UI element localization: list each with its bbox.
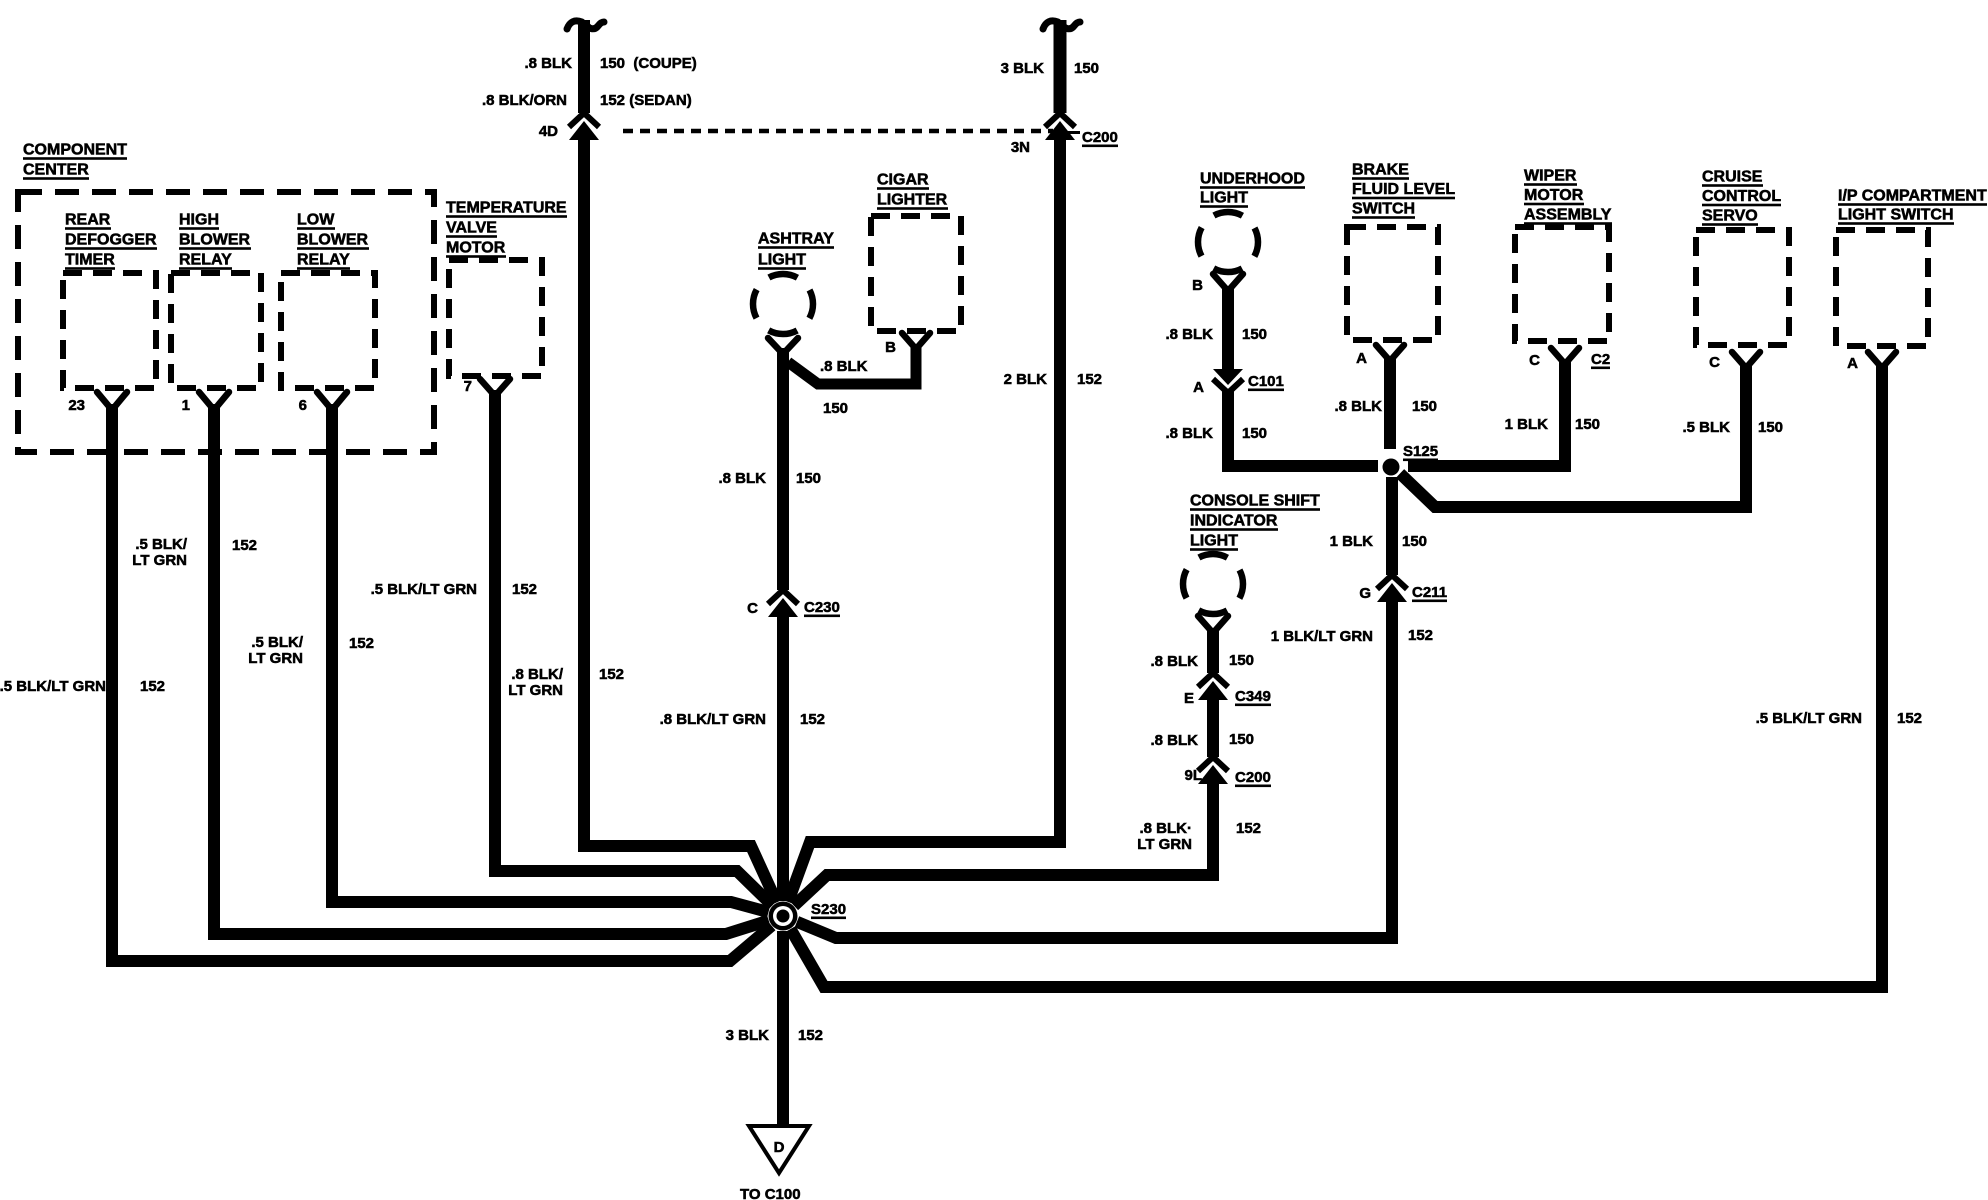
I/P compartment light switch xyxy=(1836,188,1987,346)
svg-text:152: 152 xyxy=(1897,710,1922,727)
svg-text:150: 150 xyxy=(796,470,821,487)
svg-text:LT GRN: LT GRN xyxy=(508,682,563,699)
lamp: console shift indicator light xyxy=(1183,493,1320,633)
svg-text:LT GRN: LT GRN xyxy=(248,650,303,667)
wire .8 BLK 150 (coupe) / .8 BLK/ORN 152 (sedan), 4D at C200, to S230 xyxy=(482,20,697,113)
svg-text:C101: C101 xyxy=(1248,373,1284,390)
connector A at C101 xyxy=(1193,369,1284,396)
temperature valve motor xyxy=(446,200,567,376)
low blower relay xyxy=(281,212,375,388)
svg-text:RELAY: RELAY xyxy=(297,252,350,269)
wire .8 BLK 150 (C349 to C200) xyxy=(1150,694,1254,757)
svg-text:A: A xyxy=(1356,350,1367,367)
svg-text:152: 152 xyxy=(800,711,825,728)
svg-text:C: C xyxy=(1709,354,1720,371)
wire .5 BLK/LT GRN 152 (temperature valve motor to S230) xyxy=(371,390,773,906)
wire .8 BLK 150 (brake fluid switch to S125) xyxy=(1334,357,1437,449)
wire .5 BLK 150 (cruise servo to S125) xyxy=(1400,364,1783,507)
svg-text:4D: 4D xyxy=(539,123,558,140)
svg-text:CIGAR: CIGAR xyxy=(877,172,929,189)
svg-text:SERVO: SERVO xyxy=(1702,208,1758,225)
wire 1 BLK/LT GRN 152 (C211 to S230) xyxy=(797,596,1433,938)
svg-text:152: 152 xyxy=(349,635,374,652)
svg-text:152: 152 xyxy=(232,537,257,554)
pin A xyxy=(1847,352,1896,372)
svg-text:152: 152 xyxy=(1077,371,1102,388)
wire .8 BLK 150 (cigar lighter to ashtray wire) xyxy=(788,345,916,417)
svg-text:.8 BLK: .8 BLK xyxy=(1165,326,1213,343)
svg-text:LIGHT: LIGHT xyxy=(1190,533,1238,550)
wire 3 BLK 150, 3N at C200, 2 BLK 152 to S230 xyxy=(1001,20,1099,113)
svg-text:152: 152 xyxy=(1236,820,1261,837)
svg-text:1 BLK/LT GRN: 1 BLK/LT GRN xyxy=(1271,628,1373,645)
svg-text:.5 BLK/LT GRN: .5 BLK/LT GRN xyxy=(0,678,106,695)
svg-text:152: 152 xyxy=(1408,627,1433,644)
connector 9L at C200 xyxy=(1184,757,1271,787)
svg-text:150: 150 xyxy=(823,400,848,417)
svg-text:LIGHT: LIGHT xyxy=(758,252,806,269)
svg-text:150: 150 xyxy=(1074,60,1099,77)
svg-text:I/P COMPARTMENT: I/P COMPARTMENT xyxy=(1838,188,1987,205)
svg-text:150: 150 xyxy=(1758,419,1783,436)
brake fluid level switch xyxy=(1347,162,1455,340)
svg-text:.8 BLK: .8 BLK xyxy=(1150,653,1198,670)
svg-text:150: 150 xyxy=(1412,398,1437,415)
cigar lighter xyxy=(871,172,961,331)
svg-text:G: G xyxy=(1359,585,1371,602)
pin 1 xyxy=(182,392,229,414)
svg-text:MOTOR: MOTOR xyxy=(446,240,506,257)
svg-text:150: 150 xyxy=(1575,416,1600,433)
rear defogger timer xyxy=(63,212,157,388)
pin 7 xyxy=(464,378,510,396)
svg-text:INDICATOR: INDICATOR xyxy=(1190,513,1278,530)
svg-text:1: 1 xyxy=(182,397,190,414)
svg-text:ASSEMBLY: ASSEMBLY xyxy=(1524,207,1612,224)
component center box xyxy=(18,142,434,452)
svg-text:.8 BLK: .8 BLK xyxy=(1165,425,1213,442)
svg-text:C: C xyxy=(1529,352,1540,369)
svg-text:.5 BLK/LT GRN: .5 BLK/LT GRN xyxy=(371,581,477,598)
svg-text:7: 7 xyxy=(464,378,472,395)
high blower relay xyxy=(171,212,261,388)
wire .8 BLK 150 (ashtray light down to C230) xyxy=(718,348,821,590)
wire .8 BLK 150 (underhood light to C101) xyxy=(1165,286,1267,369)
svg-text:C200: C200 xyxy=(1235,769,1271,786)
svg-text:CONSOLE SHIFT: CONSOLE SHIFT xyxy=(1190,493,1320,510)
wire .8 BLK/LT GRN 152 (C200 to S230) xyxy=(794,778,1261,906)
svg-text:E: E xyxy=(1184,690,1194,707)
svg-text:.5 BLK/: .5 BLK/ xyxy=(135,536,188,553)
svg-text:C2: C2 xyxy=(1591,351,1610,368)
pin C at C2 xyxy=(1529,348,1610,369)
svg-text:.5 BLK: .5 BLK xyxy=(1682,419,1730,436)
cruise control servo xyxy=(1696,169,1789,345)
wire 3 BLK 152 (S230 to C100) xyxy=(726,931,823,1125)
svg-text:LIGHTER: LIGHTER xyxy=(877,192,948,209)
svg-text:TIMER: TIMER xyxy=(65,252,115,269)
svg-text:9L: 9L xyxy=(1184,767,1202,784)
svg-text:LIGHT SWITCH: LIGHT SWITCH xyxy=(1838,207,1954,224)
wire .5 BLK/LT GRN 152 (rear defogger to S230) xyxy=(0,404,772,961)
connector 3N at C200 xyxy=(1011,113,1118,156)
svg-text:LIGHT: LIGHT xyxy=(1200,190,1248,207)
lamp: ashtray light xyxy=(753,231,834,354)
svg-text:3 BLK: 3 BLK xyxy=(726,1027,770,1044)
svg-text:150: 150 xyxy=(1402,533,1427,550)
svg-text:CONTROL: CONTROL xyxy=(1702,188,1781,205)
svg-text:C349: C349 xyxy=(1235,688,1271,705)
svg-text:B: B xyxy=(885,339,896,356)
svg-text:A: A xyxy=(1847,355,1858,372)
svg-text:150: 150 xyxy=(1229,731,1254,748)
svg-text:LOW: LOW xyxy=(297,212,335,229)
svg-text:FLUID LEVEL: FLUID LEVEL xyxy=(1352,181,1455,198)
lamp: underhood light xyxy=(1198,171,1305,291)
pin 6 xyxy=(299,392,347,414)
svg-text:150: 150 xyxy=(1229,652,1254,669)
svg-text:VALVE: VALVE xyxy=(446,220,497,237)
svg-text:REAR: REAR xyxy=(65,212,111,229)
svg-text:CENTER: CENTER xyxy=(23,162,89,179)
svg-text:.5 BLK/LT GRN: .5 BLK/LT GRN xyxy=(1756,710,1862,727)
svg-text:.8 BLK: .8 BLK xyxy=(1150,732,1198,749)
wire .8 BLK 150 (console light to C349) xyxy=(1150,628,1254,673)
svg-text:ASHTRAY: ASHTRAY xyxy=(758,231,834,248)
svg-text:23: 23 xyxy=(68,397,85,414)
svg-text:C211: C211 xyxy=(1412,584,1447,601)
svg-text:.8 BLK: .8 BLK xyxy=(524,55,572,72)
svg-text:COMPONENT: COMPONENT xyxy=(23,142,127,159)
svg-text:3N: 3N xyxy=(1011,139,1030,156)
svg-text:WIPER: WIPER xyxy=(1524,168,1577,185)
svg-text:.5 BLK/: .5 BLK/ xyxy=(251,634,304,651)
wire .5 BLK/LT GRN 152 (I/P switch to S230) xyxy=(791,364,1923,987)
svg-text:RELAY: RELAY xyxy=(179,252,232,269)
svg-text:LT GRN: LT GRN xyxy=(1137,836,1192,853)
svg-text:.8 BLK: .8 BLK xyxy=(820,358,868,375)
connector E at C349 xyxy=(1184,673,1271,707)
svg-text:6: 6 xyxy=(299,397,307,414)
svg-text:.8 BLK/ORN: .8 BLK/ORN xyxy=(482,92,567,109)
svg-text:MOTOR: MOTOR xyxy=(1524,187,1584,204)
svg-text:150: 150 xyxy=(1242,425,1267,442)
wiper motor assembly xyxy=(1515,168,1612,341)
svg-text:.8 BLK/LT GRN: .8 BLK/LT GRN xyxy=(660,711,766,728)
svg-text:C230: C230 xyxy=(804,599,840,616)
svg-text:BLOWER: BLOWER xyxy=(179,232,251,249)
svg-text:2 BLK: 2 BLK xyxy=(1004,371,1048,388)
svg-text:HIGH: HIGH xyxy=(179,212,219,229)
pin C xyxy=(1709,352,1760,371)
svg-text:152 (SEDAN): 152 (SEDAN) xyxy=(600,92,692,109)
connector C at C230 xyxy=(747,590,840,617)
svg-text:152: 152 xyxy=(140,678,165,695)
svg-text:150 (COUPE): 150 (COUPE) xyxy=(600,55,697,72)
svg-text:.8 BLK: .8 BLK xyxy=(718,470,766,487)
wire .8 BLK/LT GRN 152 (C230 to S230) xyxy=(660,611,825,901)
svg-text:LT GRN: LT GRN xyxy=(132,552,187,569)
svg-text:D: D xyxy=(774,1139,785,1156)
svg-text:S125: S125 xyxy=(1403,443,1438,460)
wire 1 BLK 150 (wiper motor to S125) xyxy=(1408,360,1600,466)
connector G at C211 xyxy=(1359,575,1447,602)
svg-text:3 BLK: 3 BLK xyxy=(1001,60,1045,77)
svg-text:.8 BLK·: .8 BLK· xyxy=(1140,820,1193,837)
svg-text:TO C100: TO C100 xyxy=(740,1186,801,1200)
svg-text:A: A xyxy=(1193,379,1204,396)
svg-text:152: 152 xyxy=(512,581,537,598)
svg-text:C200: C200 xyxy=(1082,129,1118,146)
svg-text:150: 150 xyxy=(1242,326,1267,343)
off-page connector D to C100 xyxy=(740,1126,809,1200)
svg-text:UNDERHOOD: UNDERHOOD xyxy=(1200,171,1305,188)
svg-text:DEFOGGER: DEFOGGER xyxy=(65,232,157,249)
svg-text:1 BLK: 1 BLK xyxy=(1330,533,1374,550)
svg-text:S230: S230 xyxy=(811,901,846,918)
svg-text:C: C xyxy=(747,600,758,617)
svg-text:TEMPERATURE: TEMPERATURE xyxy=(446,200,567,217)
svg-text:BRAKE: BRAKE xyxy=(1352,162,1409,179)
pin 23 xyxy=(68,392,127,414)
connector 4D at C200 xyxy=(539,113,599,140)
svg-text:B: B xyxy=(1192,277,1203,294)
svg-text:SWITCH: SWITCH xyxy=(1352,201,1415,218)
svg-text:152: 152 xyxy=(798,1027,823,1044)
svg-text:1 BLK: 1 BLK xyxy=(1505,416,1549,433)
pin B xyxy=(885,333,930,356)
wire .5 BLK/LT GRN 152 (high blower to S230) xyxy=(132,404,768,934)
splice S125 xyxy=(1383,443,1439,476)
wire .8 BLK 150 (C101 to S125) xyxy=(1165,391,1378,466)
dashed option divider line xyxy=(623,129,1053,134)
svg-text:BLOWER: BLOWER xyxy=(297,232,369,249)
svg-text:.8 BLK: .8 BLK xyxy=(1334,398,1382,415)
svg-text:.8 BLK/: .8 BLK/ xyxy=(511,666,564,683)
svg-text:152: 152 xyxy=(599,666,624,683)
svg-text:CRUISE: CRUISE xyxy=(1702,169,1763,186)
splice S230 xyxy=(769,901,847,931)
wire .5 BLK/LT GRN 152 (low blower to S230) xyxy=(248,404,768,912)
pin B xyxy=(1192,277,1203,294)
pin A xyxy=(1356,345,1404,367)
wire 1 BLK 150 (S125 down to C211) xyxy=(1330,477,1427,575)
